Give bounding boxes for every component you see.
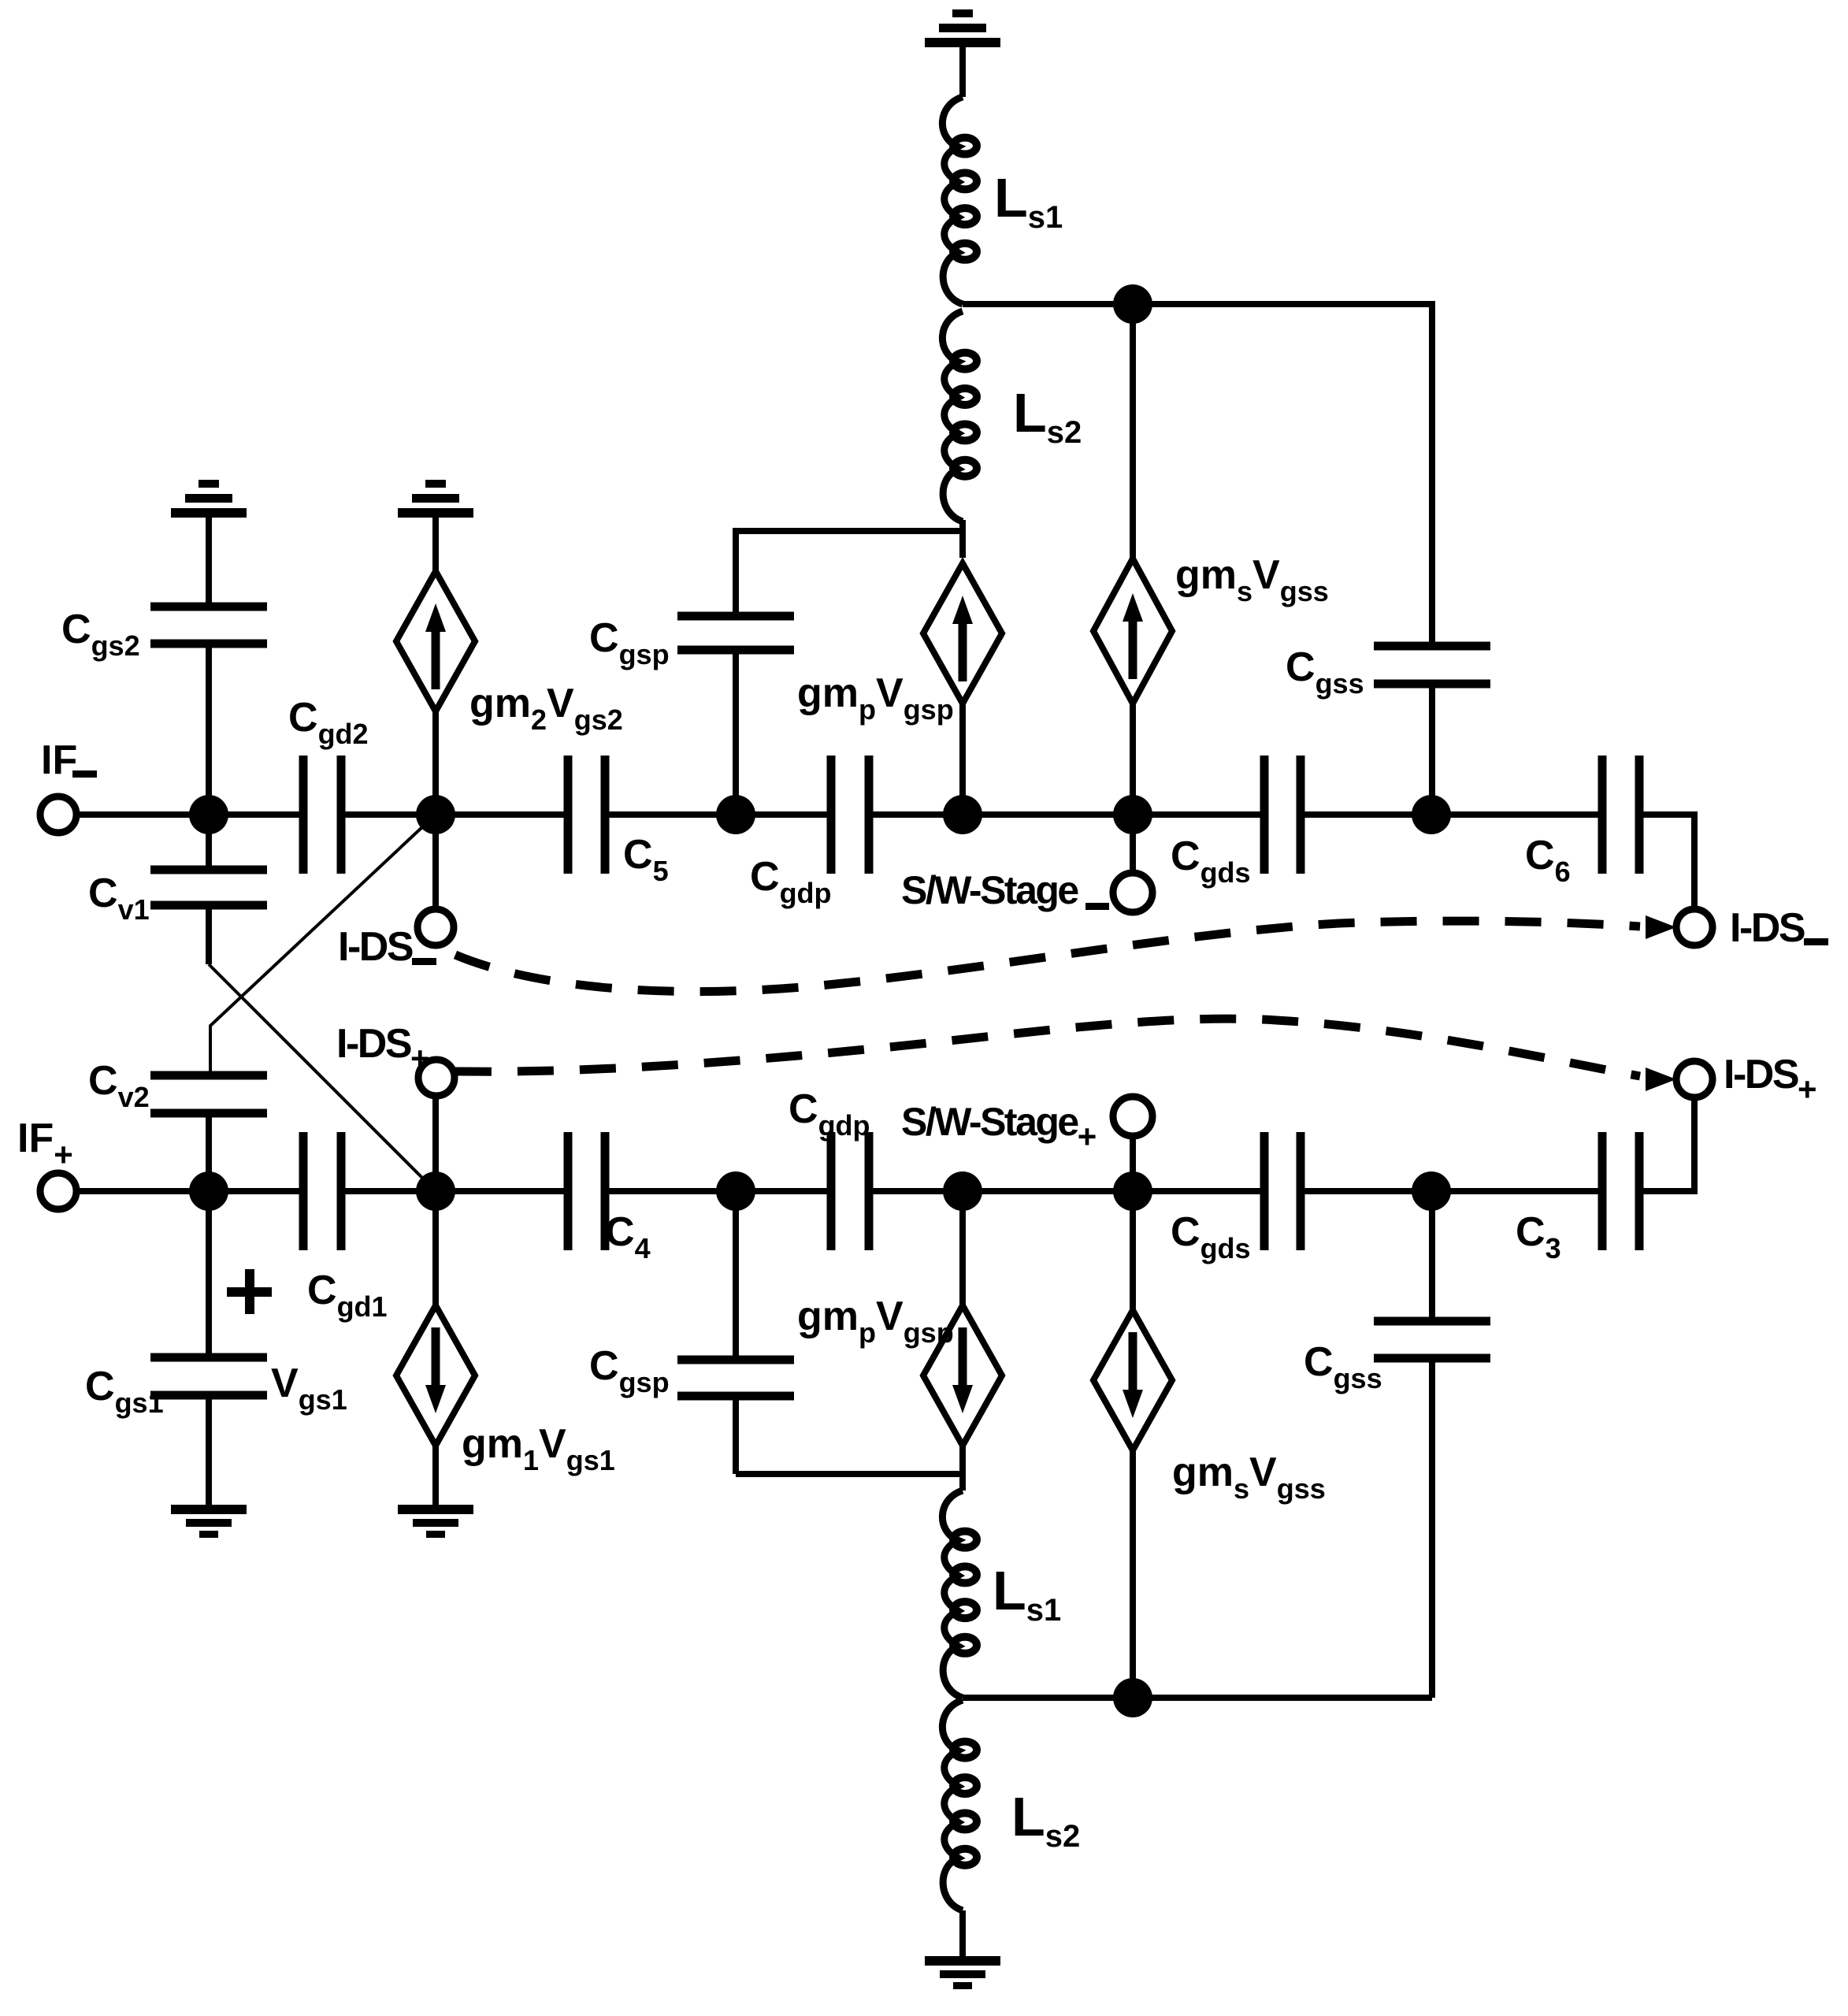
wire (Cv2 to IF+ node) — [206, 1113, 212, 1191]
capacitor Cv1 — [150, 866, 267, 874]
ground (bottom, below Ls2) — [925, 1956, 1000, 1966]
svg-text:S/W-Stage: S/W-Stage — [901, 868, 1078, 912]
inductor Ls1 (upper) — [942, 97, 963, 304]
capacitor Cgss (lower) — [1374, 1317, 1490, 1326]
wire (IF- row to I-DS- output corner) — [1639, 811, 1694, 818]
wire (gms to bottom bus) — [1130, 1446, 1136, 1698]
wire (stub to I-DS+ inner terminal) — [432, 1097, 439, 1191]
ground (top, above Ls1) — [952, 9, 973, 17]
ground (above Cgs2) — [199, 480, 219, 488]
terminal I-DS+ (output right) — [1676, 1061, 1713, 1097]
node dots on IF- row — [189, 795, 228, 834]
wire (IF+ row segment 5) — [1301, 1188, 1602, 1194]
wire (thin diagonal Cv1 to IF+ gm1 node) — [209, 964, 436, 1191]
svg-text:I-DS: I-DS — [1730, 905, 1805, 951]
wire (stub to I-DS- inner terminal) — [432, 815, 439, 909]
capacitor Cgs2 — [150, 603, 267, 611]
wire (Cgss to row node) — [1429, 684, 1435, 815]
wire (IF- row segment 4) — [869, 811, 1264, 818]
ground (below Cgs1) — [171, 1505, 247, 1514]
wire (stub to S/W-Stage- terminal) — [1130, 815, 1136, 873]
wire (gmp to row node) — [959, 704, 966, 815]
terminal S/W-Stage- — [1113, 873, 1152, 912]
node (gms bottom tap) — [1113, 1678, 1152, 1717]
wire (Cv1 bottom stub) — [206, 905, 212, 964]
inductor Ls2 (upper) — [942, 311, 963, 522]
wire (IF- row segment 3) — [605, 811, 831, 818]
wire (gm2 to row node) — [432, 711, 439, 815]
capacitor Cv2 — [150, 1071, 267, 1080]
wire (Ls2 lower to ground) — [959, 1910, 966, 1956]
wire (Cgs1 to ground) — [206, 1395, 212, 1507]
wire (gmp lower column from IF+ node) — [959, 1191, 966, 1309]
wire (Cgsp lower column from IF+ node) — [733, 1191, 739, 1360]
ground (above gm2) — [425, 480, 446, 488]
svg-text:IF: IF — [41, 737, 77, 783]
node (gms top tap on wire) — [1113, 284, 1152, 324]
wire (IF+ row segment 3) — [605, 1188, 831, 1194]
capacitor Cgd1 — [299, 1132, 308, 1250]
inductor Ls2 (lower) — [942, 1700, 963, 1910]
wire (IF- node down to Cv1) — [206, 815, 212, 870]
ground (below gm1) — [398, 1505, 473, 1514]
node dots on IF+ row — [189, 1171, 228, 1211]
wire (IF+ row segment 4) — [869, 1188, 1264, 1194]
wire (IF+ row segment 1) — [76, 1188, 303, 1194]
capacitor C6 — [1598, 756, 1607, 874]
wire (gms top column) — [1130, 304, 1136, 559]
wire (IF- row segment 1) — [76, 811, 303, 818]
wire (gm1 to ground) — [432, 1443, 439, 1507]
wire (IF+ row to I-DS+ output corner) — [1639, 1188, 1694, 1194]
inductor Ls1 (lower) — [942, 1491, 963, 1698]
current source gm2 — [396, 571, 475, 711]
terminal IF- — [40, 796, 76, 833]
wire (gms to row node) — [1130, 703, 1136, 815]
terminal I-DS- (output right) — [1676, 909, 1713, 945]
current source gms (upper) — [1093, 559, 1172, 704]
capacitor Cgs1 — [150, 1353, 267, 1362]
capacitor Cgsp (upper) — [677, 612, 794, 621]
wire (Cgsp to row node) — [733, 650, 739, 815]
wire (Cgss lower to bottom bus corner) — [1429, 1358, 1435, 1698]
capacitor C3 — [1598, 1132, 1607, 1250]
capacitor Cgdp (upper) — [827, 756, 836, 874]
capacitor Cgds (lower) — [1260, 1132, 1269, 1250]
capacitor Cgdp (lower) — [827, 1132, 836, 1250]
current source gmp (upper) — [959, 531, 966, 558]
capacitor Cgd2 — [299, 756, 308, 874]
polarity plus sign — [227, 1287, 272, 1297]
terminal I-DS- (inner) — [417, 909, 454, 945]
capacitor Cgds (upper) — [1260, 756, 1269, 874]
wire (gms lower column) — [1130, 1191, 1136, 1314]
wire (Ls2 bottom to Cgsp top column) — [736, 528, 963, 534]
wire (Cgsp top column vertical) — [733, 528, 739, 616]
wire (IF- row segment 5) — [1301, 811, 1602, 818]
terminal IF+ — [40, 1173, 76, 1209]
wire (Ls1/Ls2 junction to Cgss top column) — [963, 301, 1432, 307]
wire (gm1 column from IF+ node) — [432, 1191, 439, 1308]
capacitor C5 — [564, 756, 573, 874]
current source gms (lower) — [1093, 1310, 1172, 1450]
wire (Cgs2 to IF- node) — [206, 644, 212, 815]
dashed feedback path I-DS- — [455, 921, 1640, 992]
capacitor Cgss (upper) — [1374, 642, 1490, 651]
wire (bottom bus) — [963, 1695, 1432, 1701]
wire (Cgss lower column from row node) — [1429, 1191, 1435, 1321]
wire (IF- row segment 2) — [341, 811, 568, 818]
capacitor C4 — [564, 1132, 573, 1250]
wire (corner down to Cgss upper) — [1429, 301, 1432, 307]
svg-text:I-DS: I-DS — [338, 924, 413, 970]
wire (gmp bottom stub) — [959, 1442, 966, 1491]
wire (Cgsp bottom to gmp bottom) — [733, 1396, 739, 1474]
terminal S/W-Stage+ — [1113, 1097, 1152, 1136]
wire (stub to S/W-Stage+ terminal) — [1130, 1136, 1136, 1191]
capacitor Cgsp (lower) — [677, 1356, 794, 1364]
current source gmp (lower) — [923, 1305, 1002, 1446]
dashed feedback path I-DS+ — [455, 1019, 1640, 1076]
current source gm1 — [396, 1305, 475, 1446]
terminal I-DS+ (inner) — [418, 1060, 455, 1096]
wire (thin diagonal gm2 node to Cv2) — [210, 815, 436, 1075]
wire (IF+ node down to Cgs1) — [206, 1191, 212, 1357]
wire (IF+ row segment 2) — [341, 1188, 568, 1194]
